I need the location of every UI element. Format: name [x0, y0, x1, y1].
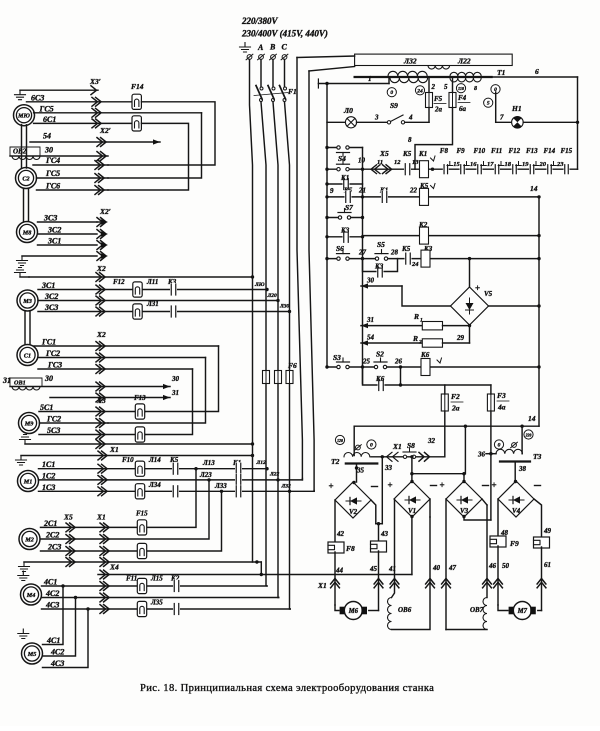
V5 top to row4	[469, 259, 471, 287]
svg-text:5С1: 5С1	[40, 403, 53, 412]
ground (M3)	[15, 268, 26, 278]
svg-text:4С3: 4С3	[45, 601, 59, 610]
svg-text:18: 18	[505, 161, 512, 168]
wire 7 / lamp H1	[495, 92, 497, 122]
ground (M4)	[18, 571, 29, 581]
switch S8	[403, 455, 406, 458]
svg-text:2С2: 2С2	[45, 531, 59, 540]
bus1 L12	[250, 60, 253, 563]
fuse F2	[441, 394, 448, 411]
svg-text:Л30: Л30	[279, 304, 290, 310]
row3 wire	[363, 235, 540, 237]
svg-text:4а: 4а	[497, 403, 506, 412]
svg-text:24: 24	[416, 88, 423, 94]
circle 0 (T1)	[387, 88, 396, 97]
contact K2 (4C3)	[173, 603, 180, 616]
svg-text:220: 220	[525, 434, 532, 438]
svg-text:F8: F8	[440, 147, 449, 155]
ground (M8)	[17, 256, 28, 266]
svg-text:220/380V: 220/380V	[241, 16, 279, 26]
svg-text:10: 10	[358, 157, 366, 165]
T1 primary winding 1	[388, 71, 427, 76]
inductor OB7	[483, 598, 487, 630]
svg-text:1С2: 1С2	[42, 471, 55, 480]
svg-text:0: 0	[370, 443, 373, 449]
row4 wire	[327, 258, 539, 260]
svg-text:4С1: 4С1	[43, 578, 57, 587]
V1 top feeder	[411, 457, 413, 474]
bridge V1	[394, 481, 430, 517]
svg-text:Х1: Х1	[109, 445, 119, 454]
wire GC4	[33, 164, 108, 166]
svg-text:1: 1	[368, 75, 372, 83]
fuse (5C3)	[135, 427, 144, 442]
svg-text:16: 16	[470, 161, 477, 168]
svg-text:+: +	[492, 480, 497, 490]
svg-text:47: 47	[448, 564, 457, 572]
wire X3p stub	[20, 89, 98, 91]
subrail	[362, 148, 364, 384]
shaft C2-M8	[23, 188, 25, 222]
wire 6C1	[34, 122, 132, 124]
svg-text:S7: S7	[345, 203, 353, 212]
wire X4	[98, 574, 412, 576]
ground wire (M2)	[24, 561, 261, 563]
motor M9	[19, 413, 40, 434]
svg-text:0: 0	[498, 443, 501, 449]
column 49/61	[534, 499, 542, 538]
T1 primary winding 2	[450, 72, 481, 76]
K6 branch riser	[400, 367, 402, 385]
pushbutton S2	[374, 365, 387, 370]
motor M3	[17, 290, 38, 311]
svg-text:Л14: Л14	[148, 456, 161, 464]
svg-text:14: 14	[530, 184, 538, 193]
svg-text:Х2: Х2	[96, 264, 106, 273]
svg-text:ГС2: ГС2	[45, 349, 60, 358]
terminal (T3)	[512, 443, 517, 448]
circle 220	[524, 430, 533, 439]
svg-text:2а: 2а	[434, 106, 443, 114]
generator C1	[17, 345, 38, 366]
svg-text:Л12: Л12	[256, 460, 267, 466]
svg-text:F9: F9	[510, 539, 519, 548]
wire 54	[30, 141, 160, 143]
svg-text:30: 30	[171, 375, 180, 383]
wire M2gnd wrap to X4	[260, 562, 262, 575]
fuse F3	[487, 394, 494, 411]
T2 core	[346, 462, 378, 464]
svg-text:F14: F14	[131, 82, 144, 91]
svg-text:V4: V4	[512, 507, 521, 515]
svg-text:50: 50	[502, 562, 510, 570]
svg-text:С2: С2	[22, 175, 29, 182]
svg-text:2С3: 2С3	[47, 543, 61, 552]
V5 right to rail	[489, 305, 540, 307]
V1 bottom to X4	[411, 517, 413, 575]
transformer T1 core	[355, 76, 492, 78]
svg-text:М9: М9	[24, 420, 34, 427]
K1 hold branch	[327, 183, 363, 185]
F3 to V3 bottom	[490, 454, 492, 520]
svg-text:Л35: Л35	[150, 599, 163, 607]
svg-text:С: С	[282, 43, 288, 52]
ground (M2)	[19, 562, 30, 572]
riser L33 to 2C3	[41, 491, 222, 551]
ground (M9)	[20, 435, 31, 445]
wire X2 to bus1	[29, 276, 253, 278]
circle 0 (T2)	[367, 440, 376, 449]
wire GC5 wrap	[108, 113, 202, 178]
svg-text:S4: S4	[338, 154, 346, 163]
wire 4C3	[42, 608, 291, 610]
svg-text:ОВ1: ОВ1	[14, 380, 26, 387]
svg-text:+: +	[329, 481, 334, 491]
wire box to B5	[297, 56, 355, 58]
svg-text:Х1: Х1	[96, 513, 106, 522]
svg-text:1С1: 1С1	[42, 460, 55, 469]
svg-text:+: +	[440, 480, 445, 490]
wire 1 (rail to T1)	[318, 83, 389, 85]
wire 1C3	[39, 490, 315, 492]
svg-text:F2: F2	[451, 392, 460, 401]
svg-text:38: 38	[518, 465, 527, 473]
svg-text:Х4: Х4	[109, 563, 119, 572]
pushbutton S7	[338, 215, 351, 220]
left rail	[326, 84, 328, 368]
svg-text:Рис. 18. Принципиальная схема: Рис. 18. Принципиальная схема электрообо…	[140, 683, 434, 694]
wire 6C1 wrap to GC6	[108, 123, 189, 190]
svg-text:F3: F3	[497, 391, 506, 400]
ground wire (M8)	[22, 255, 97, 257]
svg-text:К3: К3	[340, 227, 350, 235]
bridge V4	[498, 481, 534, 517]
motor M2	[19, 529, 40, 550]
column 47	[445, 499, 447, 630]
row1 wire	[327, 168, 433, 170]
svg-text:Л13: Л13	[202, 459, 215, 467]
svg-text:3С2: 3С2	[47, 226, 61, 235]
circle 0 right	[491, 85, 500, 94]
svg-text:46: 46	[488, 562, 497, 570]
wire 4C1	[42, 585, 268, 587]
svg-text:S8: S8	[407, 441, 415, 450]
svg-text:Л22: Л22	[457, 57, 471, 66]
svg-text:К1: К1	[340, 174, 349, 182]
terminal N	[247, 55, 252, 60]
wire GC5(C2)	[37, 177, 109, 179]
svg-text:Х2′: Х2′	[99, 207, 111, 216]
column 48/50	[497, 499, 499, 537]
svg-text:4: 4	[408, 114, 413, 122]
svg-text:С1: С1	[24, 352, 31, 359]
svg-text:24: 24	[411, 261, 419, 268]
svg-text:М1: М1	[23, 478, 33, 485]
wire 4C3(M5)	[43, 609, 89, 668]
K3 branch	[327, 236, 363, 238]
svg-text:Н1: Н1	[511, 104, 522, 113]
svg-text:5: 5	[444, 83, 448, 91]
svg-text:2: 2	[431, 83, 436, 91]
svg-text:М2: М2	[24, 536, 34, 543]
S4 hold row	[327, 147, 363, 149]
svg-text:3С1: 3С1	[41, 281, 55, 290]
fuse L31	[133, 304, 142, 319]
svg-text:ГС5: ГС5	[39, 104, 54, 113]
svg-text:S5: S5	[377, 240, 385, 249]
T3 core	[500, 460, 530, 462]
svg-text:М7: М7	[517, 608, 528, 615]
svg-text:R: R	[413, 312, 419, 321]
svg-text:F12: F12	[509, 147, 521, 155]
bridge V2	[335, 482, 371, 518]
svg-text:V3: V3	[460, 507, 469, 515]
svg-text:5С3: 5С3	[47, 426, 60, 435]
svg-text:ЛЮ: ЛЮ	[254, 282, 265, 288]
svg-text:К5: К5	[402, 150, 412, 158]
svg-text:23: 23	[556, 161, 564, 168]
motor M8	[17, 222, 38, 243]
svg-text:6а: 6а	[459, 105, 467, 113]
svg-text:14: 14	[528, 414, 536, 423]
contact K5 (1C3)	[172, 485, 179, 498]
wire GC2(M9)	[40, 422, 109, 424]
motor M5	[22, 643, 43, 664]
shaft M3-C1	[24, 311, 26, 345]
svg-text:F12: F12	[113, 278, 125, 286]
circle 0 (T3)	[494, 440, 503, 449]
svg-text:+: +	[388, 480, 393, 490]
svg-text:30: 30	[44, 146, 53, 155]
K3 bypass branch	[363, 259, 398, 272]
svg-text:К6: К6	[420, 351, 430, 359]
svg-text:43: 43	[380, 530, 389, 538]
terminal A	[259, 55, 264, 60]
svg-text:S2: S2	[376, 350, 384, 359]
svg-text:Л32: Л32	[403, 57, 417, 66]
svg-text:6С3: 6С3	[31, 93, 44, 102]
svg-text:Л23: Л23	[199, 471, 212, 479]
svg-text:F11: F11	[491, 147, 502, 155]
svg-text:61: 61	[544, 561, 551, 569]
inner right rail	[538, 197, 540, 426]
lamp H1	[512, 117, 524, 129]
wire 6C3 wrap to GC4	[108, 102, 215, 165]
svg-text:F10: F10	[474, 147, 486, 155]
svg-text:2С1: 2С1	[43, 519, 57, 528]
svg-text:4С1: 4С1	[46, 636, 60, 645]
svg-text:6: 6	[535, 67, 539, 76]
T2 to V2	[356, 465, 358, 482]
svg-text:F6: F6	[288, 361, 297, 370]
svg-text:32: 32	[427, 437, 436, 445]
ground wire (M9)	[25, 443, 253, 445]
riser L13 to 2C1	[41, 469, 197, 528]
pushbutton S4 lower	[337, 167, 350, 172]
svg-text:Х1: Х1	[392, 442, 402, 451]
svg-text:41: 41	[388, 565, 396, 573]
wire 3C1	[38, 289, 267, 291]
svg-text:R: R	[412, 334, 418, 343]
svg-text:S9: S9	[390, 101, 398, 110]
lamp L0 row	[327, 121, 346, 123]
svg-text:110: 110	[458, 86, 465, 91]
box L32 L22	[355, 54, 513, 65]
pushbutton S3	[337, 365, 350, 370]
svg-text:7: 7	[500, 114, 504, 122]
OB7 bottom wrap	[446, 629, 487, 631]
svg-text:0: 0	[390, 90, 393, 96]
svg-text:Л33: Л33	[214, 482, 227, 490]
OB6 bottom wrap	[392, 517, 431, 630]
riser L23 to 2C2	[41, 480, 210, 539]
svg-text:F14: F14	[544, 147, 556, 155]
bridge V3	[446, 481, 482, 517]
svg-text:К1: К1	[418, 150, 427, 158]
F1 linkage	[254, 93, 288, 96]
motor M4	[21, 584, 42, 605]
svg-text:8: 8	[408, 136, 412, 144]
svg-text:27: 27	[358, 249, 367, 257]
bundle B6 (to 1C3)	[309, 71, 314, 491]
svg-text:4С3: 4С3	[50, 659, 64, 668]
right rail outer	[577, 77, 579, 169]
svg-text:Л31: Л31	[146, 300, 159, 308]
motor M6	[335, 605, 339, 611]
svg-text:11: 11	[377, 159, 383, 166]
svg-text:45: 45	[369, 565, 378, 573]
svg-text:33: 33	[384, 464, 393, 472]
svg-text:42: 42	[336, 530, 345, 538]
svg-text:М5: М5	[27, 651, 37, 658]
terminal C	[282, 55, 287, 60]
T2 feeder	[353, 426, 355, 455]
svg-text:F4: F4	[458, 94, 467, 102]
terminal (T2)	[356, 445, 361, 450]
contact K1 (1C2)	[235, 473, 242, 486]
wire 3C3(M8)	[38, 221, 98, 223]
svg-text:А: А	[257, 43, 264, 52]
T3 right riser	[521, 426, 523, 454]
fuse (6C1)	[132, 116, 141, 131]
svg-text:В: В	[269, 43, 276, 52]
svg-text:44: 44	[335, 567, 344, 575]
motor M1	[18, 471, 39, 492]
svg-text:8: 8	[474, 86, 477, 92]
S3 S2 K6 row	[327, 366, 539, 368]
svg-text:Х1: Х1	[317, 581, 327, 590]
column 43/45	[371, 500, 376, 524]
svg-text:F5: F5	[434, 95, 443, 103]
svg-text:17: 17	[487, 161, 494, 168]
wire 1C2	[39, 479, 303, 481]
svg-text:S3: S3	[333, 353, 341, 362]
motor M10	[14, 105, 35, 126]
svg-text:Х3: Х3	[96, 396, 106, 405]
svg-text:ГС3: ГС3	[47, 361, 62, 370]
column 46	[482, 499, 487, 505]
wire 3C1(M8)	[38, 244, 98, 246]
svg-text:Х2′: Х2′	[99, 126, 111, 135]
bridge V5	[451, 287, 489, 325]
svg-text:К5: К5	[401, 245, 411, 253]
svg-text:4С2: 4С2	[45, 589, 59, 598]
fuse F13	[135, 404, 144, 419]
svg-text:ГС2: ГС2	[46, 415, 61, 424]
svg-text:54: 54	[43, 132, 51, 141]
comb wire F8-F15	[433, 168, 578, 170]
fuse F5	[428, 78, 430, 93]
ground (M10)	[15, 90, 26, 100]
svg-text:Л34: Л34	[148, 481, 161, 489]
svg-text:5: 5	[487, 101, 490, 107]
svg-text:12: 12	[394, 159, 401, 166]
svg-text:2а: 2а	[451, 404, 460, 413]
svg-text:49: 49	[543, 527, 552, 535]
circle 120	[335, 435, 344, 444]
svg-text:М6: М6	[348, 608, 359, 615]
wire 4C2(M5)	[43, 598, 76, 657]
row2 wire	[327, 196, 539, 198]
wire 5C3	[39, 434, 145, 436]
svg-text:230/400V (415V, 440V): 230/400V (415V, 440V)	[241, 29, 328, 39]
transformer T2 winding	[344, 452, 370, 456]
svg-text:F9: F9	[457, 147, 466, 155]
wire 5C1	[39, 411, 145, 413]
svg-text:F15: F15	[136, 510, 148, 518]
svg-text:F1: F1	[288, 87, 297, 96]
contact K3 (3C3)	[170, 305, 177, 318]
svg-text:F11: F11	[126, 575, 137, 583]
svg-text:Т2: Т2	[331, 457, 340, 466]
svg-text:Л15: Л15	[150, 575, 163, 583]
svg-text:Х2: Х2	[96, 330, 106, 339]
column 42/44	[334, 500, 336, 543]
svg-text:3С1: 3С1	[47, 237, 61, 246]
svg-text:36: 36	[477, 451, 486, 459]
svg-text:F8: F8	[346, 544, 355, 553]
svg-text:6С1: 6С1	[43, 115, 56, 124]
svg-text:+: +	[475, 283, 480, 293]
shaft M10-C2	[21, 125, 23, 169]
svg-text:31: 31	[171, 389, 179, 397]
circle 110	[456, 84, 465, 93]
lamp L0	[345, 117, 356, 128]
svg-text:ОВ2: ОВ2	[13, 148, 27, 156]
svg-text:V1: V1	[408, 507, 416, 515]
svg-text:29: 29	[456, 334, 465, 342]
svg-text:ГС4: ГС4	[45, 156, 60, 165]
bundle B5 (to 1C2)	[297, 58, 302, 479]
terminal B	[271, 55, 276, 60]
svg-text:Т3: Т3	[533, 452, 542, 461]
wire 1C1	[39, 468, 268, 470]
wire box to B6	[309, 67, 355, 72]
bus2 L1	[261, 60, 267, 587]
wire X1 to bus1	[21, 455, 253, 457]
wire 6	[492, 76, 578, 78]
bus4 L3	[285, 60, 291, 610]
V5 bottom link	[469, 325, 471, 343]
svg-text:40: 40	[432, 564, 441, 572]
svg-text:X3′: X3′	[89, 77, 101, 86]
svg-text:30: 30	[366, 277, 375, 285]
contact K1 (1C3)	[235, 485, 242, 498]
T1 secondary winding 2	[450, 78, 481, 82]
bus3 L2	[273, 60, 279, 598]
svg-text:15: 15	[453, 161, 460, 168]
wire GC1 wrap to 5C1	[34, 345, 219, 347]
